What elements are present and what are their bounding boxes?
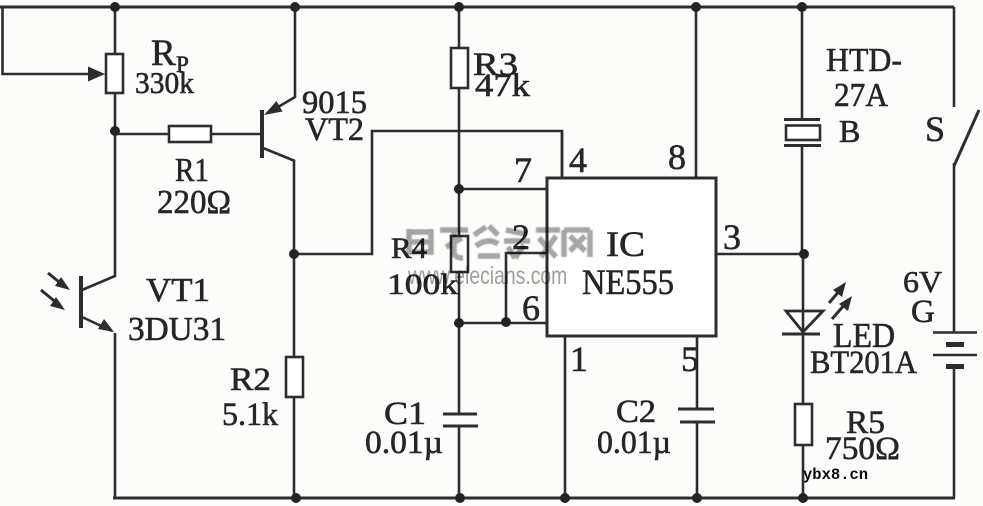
transistor VT1 emitter diagonal [82, 317, 112, 331]
capacitor C1 plates [443, 414, 478, 426]
resistor R4 body [451, 236, 468, 272]
wire pin 4 vertical [561, 131, 564, 178]
wire C2 bottom lead [696, 423, 699, 498]
wire pin 7 [459, 188, 547, 191]
wire R1 right to VT2 base [211, 133, 261, 136]
wire LED to R5 [802, 334, 805, 404]
node dot VT2 collector [289, 249, 299, 259]
svg-text:8: 8 [668, 137, 686, 177]
svg-text:6: 6 [522, 288, 540, 328]
potentiometer RP body [106, 54, 123, 93]
svg-text:VT2: VT2 [305, 112, 364, 148]
node dot pin2-6 junction [501, 317, 511, 327]
svg-text:4: 4 [569, 140, 587, 180]
svg-text:ybx8.cn: ybx8.cn [803, 466, 868, 484]
buzzer B body [786, 126, 820, 141]
wire VT1 collector vertical [82, 131, 115, 290]
svg-text:47k: 47k [475, 68, 531, 104]
wire R3 bottom to pin7 node [458, 88, 461, 189]
battery G plates [933, 333, 977, 367]
node dot rail-R5 [798, 493, 808, 503]
wire R2 top [293, 254, 296, 357]
svg-text:www.elecians.com: www.elecians.com [407, 262, 567, 290]
resistor R1 body [169, 126, 211, 142]
Rp wiper arrowhead [88, 67, 105, 82]
wire Rp top lead [114, 7, 117, 54]
wire R4 bottom lead [458, 272, 461, 323]
resistor R5 body [795, 404, 812, 445]
LED arrow 2 [832, 303, 846, 319]
watermark glyphs [407, 226, 590, 258]
wire R4 top lead [458, 189, 461, 236]
node dot rail-pin1 [560, 493, 570, 503]
VT1 emitter arrowhead [98, 319, 114, 332]
transistor VT2 collector diagonal [263, 148, 295, 161]
node dot pin6 junction [454, 318, 464, 328]
switch S blade [954, 110, 979, 166]
wire R1 left [115, 133, 169, 136]
svg-text:220Ω: 220Ω [157, 184, 231, 221]
node dot rail-R2 [291, 493, 301, 503]
transistor VT2 base bar [260, 110, 264, 158]
svg-text:S: S [925, 109, 945, 149]
svg-text:750Ω: 750Ω [825, 431, 900, 467]
wire VT2 collector down [293, 160, 296, 254]
node dot rail-C1 [455, 493, 465, 503]
svg-text:5: 5 [681, 339, 699, 379]
svg-text:NE555: NE555 [582, 262, 674, 302]
svg-text:3: 3 [723, 217, 741, 257]
wire R5 bottom lead [802, 445, 805, 498]
node dot rail-buzzer [797, 2, 807, 12]
node dot rail-C2 [692, 493, 702, 503]
wire top rail [0, 6, 954, 9]
VT2 emitter arrowhead [264, 101, 283, 115]
transistor VT1 base bar [79, 276, 83, 328]
node dot pin7 junction [454, 184, 464, 194]
svg-text:27A: 27A [834, 77, 888, 114]
wire pin 3 [716, 253, 804, 256]
VT1 light arrow 1 [48, 273, 64, 286]
svg-text:BT201A: BT201A [810, 345, 917, 381]
svg-text:3DU31: 3DU31 [128, 311, 226, 348]
op-amp U1 IC NE555 box [547, 178, 716, 336]
svg-text:5.1k: 5.1k [222, 397, 278, 433]
node dot rail-Rp [110, 2, 120, 12]
wire switch to battery [953, 163, 956, 332]
wire pin 1 vertical [564, 336, 567, 498]
node dot pin3 junction [799, 249, 809, 259]
capacitor C2 plates [678, 409, 715, 422]
svg-text:B: B [839, 113, 860, 149]
svg-text:0.01µ: 0.01µ [365, 425, 443, 461]
svg-text:R2: R2 [230, 362, 271, 398]
node dot rail-R3 [454, 2, 464, 12]
wire VT2 emitter vertical from rail [268, 7, 295, 113]
wire buzzer top lead [801, 7, 804, 119]
LED D1 cathode bar [782, 333, 820, 336]
svg-text:IC: IC [606, 224, 645, 264]
wire C1 bottom lead [458, 427, 461, 498]
svg-text:0.01µ: 0.01µ [597, 425, 671, 461]
wire C1 top lead [458, 323, 461, 413]
svg-text:330k: 330k [135, 65, 194, 100]
wire LED top lead [802, 254, 805, 334]
buzzer B plates [784, 120, 821, 146]
LED D1 triangle [786, 311, 823, 332]
resistor R3 body [451, 48, 468, 88]
wire node VT2-collector to pin4 route [294, 131, 562, 254]
wire right column top [953, 7, 956, 107]
VT1 light arrow 2 [41, 290, 58, 304]
wire bottom rail [113, 497, 955, 500]
wire VT1 emitter down [114, 333, 117, 498]
wire buzzer bottom lead [801, 146, 804, 254]
node dot rail-VT2 [290, 2, 300, 12]
svg-text:7: 7 [514, 150, 532, 190]
wire pin 2 stub [506, 253, 547, 322]
svg-text:HTD-: HTD- [826, 42, 902, 79]
wire R2 bottom [293, 397, 296, 498]
wire Rp bottom lead [114, 93, 117, 131]
wire R3 top lead [458, 7, 461, 48]
wire battery to bottom rail [953, 368, 956, 498]
node dot rail-pin8 [691, 2, 701, 12]
svg-text:G: G [911, 294, 935, 330]
wire left loop vertical [3, 7, 93, 74]
wire pin 8 vertical [695, 7, 698, 178]
resistor R2 body [286, 357, 303, 397]
svg-text:VT1: VT1 [146, 272, 210, 309]
svg-text:1: 1 [570, 339, 588, 379]
node dot Rp bottom [110, 126, 120, 136]
wire pin 6 [459, 322, 547, 325]
wire pin 5 to C2 [696, 336, 699, 408]
LED arrow 1 [829, 289, 841, 303]
